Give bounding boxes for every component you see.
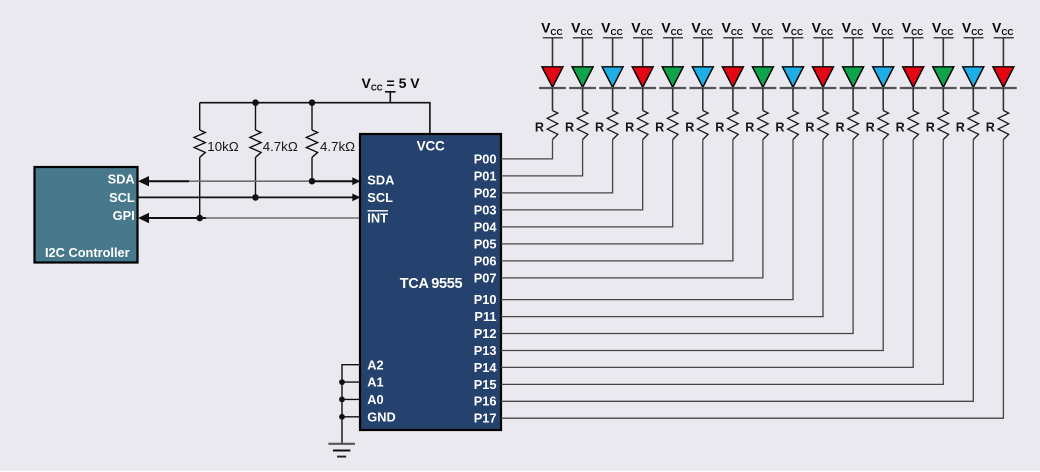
svg-text:4.7kΩ: 4.7kΩ — [263, 139, 298, 154]
svg-text:R: R — [805, 121, 814, 135]
wire VCC to LED D10 anode — [822, 38, 824, 67]
wire VCC to LED D7 anode — [732, 38, 734, 67]
svg-text:P06: P06 — [474, 253, 497, 268]
wire LED D14 cathode to resistor R14 — [942, 88, 944, 111]
wire LED D12 cathode to resistor R12 — [882, 88, 884, 111]
junction dot rail / SCL pull-up — [252, 99, 259, 106]
power supply VCC = 5 V label — [362, 75, 421, 92]
wire LED D2 cathode to resistor R2 — [582, 88, 584, 111]
resistor R2 — [565, 111, 588, 140]
wire LED D10 cathode to resistor R10 — [822, 88, 824, 111]
node VCC supply column 6 — [691, 20, 713, 38]
wire LED D3 cathode to resistor R3 — [612, 88, 614, 111]
node VCC supply column 16 — [992, 20, 1014, 38]
svg-text:P13: P13 — [474, 343, 497, 358]
LED D8 (green) — [750, 67, 777, 88]
svg-text:10kΩ: 10kΩ — [207, 139, 238, 154]
node VCC supply column 2 — [571, 20, 593, 38]
wire resistor R4 to pin P03 — [501, 140, 643, 210]
wire VCC to LED D13 anode — [912, 38, 914, 67]
junction dot A1 — [339, 379, 345, 385]
resistor R9 — [775, 111, 798, 140]
LED D10 (red) — [810, 67, 837, 88]
wire LED D7 cathode to resistor R7 — [732, 88, 734, 111]
svg-text:GND: GND — [367, 409, 395, 424]
wire resistor R6 to pin P05 — [501, 140, 703, 244]
junction dot SDA pull-up — [309, 178, 316, 185]
svg-text:SCL: SCL — [109, 190, 135, 205]
resistor R10 — [805, 111, 828, 140]
svg-text:A2: A2 — [367, 357, 383, 372]
wire resistor R1 to pin P00 — [501, 140, 553, 159]
resistor R5 — [655, 111, 678, 140]
LED D7 (red) — [720, 67, 747, 88]
svg-text:R: R — [625, 121, 634, 135]
svg-text:TCA 9555: TCA 9555 — [400, 276, 463, 292]
wire resistor R10 to pin P11 — [501, 140, 823, 317]
junction dot A0 — [339, 397, 345, 403]
wire GPI / INT (TCA9555 to I2C controller) — [138, 213, 360, 223]
junction dot rail / SDA pull-up — [309, 99, 316, 106]
svg-text:P17: P17 — [474, 411, 497, 426]
wire LED D1 cathode to resistor R1 — [552, 88, 554, 111]
resistor R15 — [956, 111, 979, 140]
resistor R16 — [986, 111, 1009, 140]
node VCC supply column 15 — [962, 20, 984, 38]
LED D1 (red) — [539, 67, 566, 88]
svg-text:R: R — [866, 121, 875, 135]
LED D3 (blue) — [599, 67, 626, 88]
node VCC supply column 12 — [872, 20, 894, 38]
wire VCC to LED D11 anode — [852, 38, 854, 67]
svg-text:P02: P02 — [474, 185, 497, 200]
resistor R14 — [926, 111, 949, 140]
svg-text:R: R — [835, 121, 844, 135]
wire resistor R15 to pin P16 — [501, 140, 973, 402]
wire VCC to LED D15 anode — [972, 38, 974, 67]
wire VCC to LED D3 anode — [612, 38, 614, 67]
wire resistor R8 to pin P07 — [501, 140, 763, 278]
wire resistor R16 to pin P17 — [501, 140, 1003, 419]
svg-text:INT: INT — [367, 211, 388, 226]
wire LED D9 cathode to resistor R9 — [792, 88, 794, 111]
wire resistor R11 to pin P12 — [501, 140, 853, 334]
svg-text:VCC: VCC — [417, 139, 445, 154]
node VCC supply column 7 — [721, 20, 743, 38]
node VCC supply column 10 — [812, 20, 834, 38]
wire VCC to LED D8 anode — [762, 38, 764, 67]
resistor 4.7 kOhm pull-up (SCL) — [250, 103, 298, 198]
svg-text:P07: P07 — [474, 270, 497, 285]
svg-text:I2C Controller: I2C Controller — [45, 245, 130, 260]
wire LED D11 cathode to resistor R11 — [852, 88, 854, 111]
wire VCC to LED D9 anode — [792, 38, 794, 67]
svg-text:P10: P10 — [474, 292, 497, 307]
node VCC supply column 13 — [902, 20, 924, 38]
LED D6 (blue) — [689, 67, 716, 88]
resistor R7 — [715, 111, 738, 140]
wire resistor R12 to pin P13 — [501, 140, 883, 351]
LED D9 (blue) — [780, 67, 807, 88]
resistor R4 — [625, 111, 648, 140]
svg-text:R: R — [685, 121, 694, 135]
node VCC supply column 9 — [782, 20, 804, 38]
LED D15 (blue) — [960, 67, 987, 88]
wire resistor R5 to pin P04 — [501, 140, 673, 227]
LED D13 (red) — [900, 67, 927, 88]
LED D14 (green) — [930, 67, 957, 88]
svg-text:R: R — [986, 121, 995, 135]
svg-text:R: R — [565, 121, 574, 135]
wire A1 — [342, 381, 360, 383]
LED D2 (green) — [569, 67, 596, 88]
svg-text:R: R — [715, 121, 724, 135]
resistor 10 kOhm pull-up (INT) — [194, 103, 239, 218]
LED D4 (red) — [629, 67, 656, 88]
svg-text:R: R — [956, 121, 965, 135]
junction dot SCL pull-up — [252, 194, 259, 201]
resistor R8 — [745, 111, 768, 140]
svg-text:SDA: SDA — [108, 171, 135, 186]
wire resistor R3 to pin P02 — [501, 140, 613, 193]
node VCC supply column 8 — [751, 20, 773, 38]
wire VCC to LED D6 anode — [702, 38, 704, 67]
wire resistor R13 to pin P14 — [501, 140, 913, 368]
LED D11 (green) — [840, 67, 867, 88]
wire A2 — [342, 365, 360, 444]
wire resistor R7 to pin P06 — [501, 140, 733, 261]
node VCC supply column 4 — [631, 20, 653, 38]
svg-text:P14: P14 — [474, 360, 498, 375]
wire VCC to LED D2 anode — [582, 38, 584, 67]
junction dot INT pull-up — [196, 215, 203, 222]
resistor R11 — [835, 111, 858, 140]
LED D16 (red) — [990, 67, 1017, 88]
wire LED D8 cathode to resistor R8 — [762, 88, 764, 111]
svg-text:VCC = 5 V: VCC = 5 V — [362, 75, 421, 92]
wire resistor R2 to pin P01 — [501, 140, 583, 176]
node VCC supply column 14 — [932, 20, 954, 38]
svg-text:R: R — [775, 121, 784, 135]
resistor R13 — [896, 111, 919, 140]
wire VCC rail to IC VCC pin — [200, 103, 430, 134]
wire VCC to LED D4 anode — [642, 38, 644, 67]
svg-text:SCL: SCL — [367, 190, 393, 205]
svg-text:GPI: GPI — [113, 208, 135, 223]
svg-text:P01: P01 — [474, 168, 497, 183]
wire LED D6 cathode to resistor R6 — [702, 88, 704, 111]
svg-text:R: R — [655, 121, 664, 135]
resistor R1 — [535, 111, 558, 140]
wire VCC to LED D1 anode — [552, 38, 554, 67]
svg-text:A1: A1 — [367, 375, 383, 390]
wire resistor R14 to pin P15 — [501, 140, 943, 385]
svg-text:R: R — [745, 121, 754, 135]
node VCC supply column 3 — [601, 20, 623, 38]
svg-text:P03: P03 — [474, 202, 497, 217]
svg-text:P16: P16 — [474, 394, 497, 409]
svg-text:4.7kΩ: 4.7kΩ — [320, 139, 355, 154]
resistor R3 — [595, 111, 618, 140]
wire LED D5 cathode to resistor R5 — [672, 88, 674, 111]
svg-text:P15: P15 — [474, 377, 497, 392]
svg-text:R: R — [926, 121, 935, 135]
wire GND — [342, 416, 360, 418]
wire LED D16 cathode to resistor R16 — [1002, 88, 1004, 111]
wire resistor R9 to pin P10 — [501, 140, 793, 300]
wire LED D13 cathode to resistor R13 — [912, 88, 914, 111]
LED D12 (blue) — [870, 67, 897, 88]
svg-text:P12: P12 — [474, 326, 497, 341]
wire VCC to LED D14 anode — [942, 38, 944, 67]
resistor 4.7 kOhm pull-up (SDA) — [306, 103, 355, 182]
svg-text:SDA: SDA — [367, 172, 394, 187]
ground symbol — [328, 444, 355, 457]
power supply terminal bar — [385, 92, 396, 103]
svg-text:P05: P05 — [474, 236, 497, 251]
wire SCL (I2C controller to TCA9555) — [138, 194, 361, 202]
LED D5 (green) — [659, 67, 686, 88]
node VCC supply column 11 — [842, 20, 864, 38]
wire VCC to LED D5 anode — [672, 38, 674, 67]
I2C Controller block — [35, 167, 138, 263]
wire SDA (I2C controller to TCA9555) — [138, 176, 361, 186]
node VCC supply column 1 — [541, 20, 563, 38]
svg-text:A0: A0 — [367, 392, 383, 407]
wire LED D4 cathode to resistor R4 — [642, 88, 644, 111]
node VCC supply column 5 — [661, 20, 683, 38]
svg-text:R: R — [896, 121, 905, 135]
wire VCC to LED D16 anode — [1002, 38, 1004, 67]
wire A0 — [342, 398, 360, 400]
svg-text:R: R — [595, 121, 604, 135]
svg-text:P04: P04 — [474, 219, 498, 234]
svg-text:P11: P11 — [474, 309, 496, 324]
svg-text:P00: P00 — [474, 151, 497, 166]
resistor R6 — [685, 111, 708, 140]
wire VCC to LED D12 anode — [882, 38, 884, 67]
resistor R12 — [866, 111, 889, 140]
IC U1 TCA9555 I/O expander — [360, 134, 501, 430]
wire LED D15 cathode to resistor R15 — [972, 88, 974, 111]
svg-text:R: R — [535, 121, 544, 135]
junction dot GND — [339, 414, 345, 420]
